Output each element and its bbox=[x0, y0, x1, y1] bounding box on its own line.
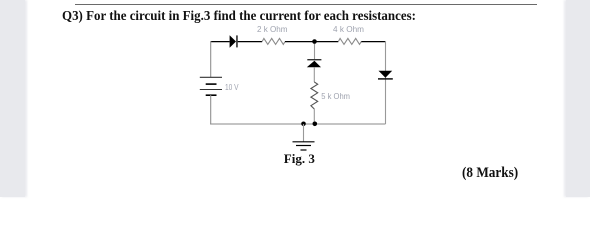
wire middle branch mid bbox=[313, 67, 315, 82]
resistor R2 4k zigzag bbox=[338, 38, 361, 44]
resistor R3 5k vertical zigzag bbox=[311, 82, 318, 109]
wire top mid segment 2 bbox=[285, 41, 338, 43]
top horizontal rule bbox=[75, 4, 537, 5]
marks label bbox=[462, 165, 518, 182]
wire left vertical lower bbox=[210, 95, 212, 124]
ground symbol bbox=[293, 142, 315, 150]
resistor R1 2k zigzag bbox=[262, 38, 285, 44]
diode D1 bbox=[230, 35, 238, 48]
wire top mid segment 1 bbox=[238, 41, 262, 43]
wire bottom bbox=[210, 123, 385, 125]
wire top right segment bbox=[361, 41, 385, 43]
battery V1 plates bbox=[200, 77, 222, 95]
wire left vertical upper bbox=[210, 41, 212, 77]
right gray margin strip bbox=[566, 0, 590, 197]
svg-text:10 V: 10 V bbox=[225, 83, 239, 92]
ground stem bbox=[303, 124, 305, 142]
wire top left segment bbox=[211, 41, 230, 43]
wire middle branch upper bbox=[314, 42, 316, 59]
svg-text:2 k Ohm: 2 k Ohm bbox=[257, 24, 288, 34]
left gray margin strip bbox=[0, 0, 25, 197]
svg-text:4 k Ohm: 4 k Ohm bbox=[333, 24, 364, 34]
wire middle branch lower bbox=[313, 109, 315, 124]
caption Fig. 3 bbox=[284, 152, 315, 167]
svg-text:5 k Ohm: 5 k Ohm bbox=[321, 91, 350, 101]
node dot top bbox=[312, 39, 317, 44]
title text Q3 bbox=[62, 8, 416, 24]
node dot ground tap bbox=[301, 122, 306, 127]
diode D3 pointing down bbox=[378, 71, 393, 80]
diode D2 pointing up bbox=[307, 59, 322, 67]
node dot bottom branch bbox=[313, 122, 318, 127]
wire right vertical bbox=[385, 41, 387, 124]
